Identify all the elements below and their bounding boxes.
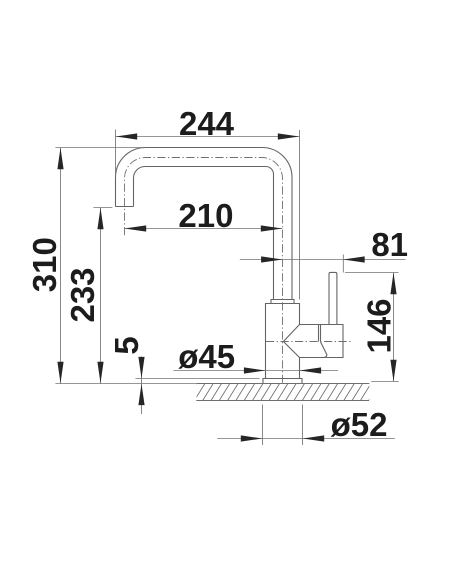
arrow 5 lower (points up) xyxy=(138,384,144,405)
arrow 233 up xyxy=(97,208,103,229)
svg-text:5: 5 xyxy=(108,336,145,354)
ext line spout top xyxy=(55,147,145,149)
ext line lever top xyxy=(345,272,399,274)
sleeve joint line a xyxy=(318,325,320,342)
arrow 81 right (points left) xyxy=(343,256,364,262)
spout outer edge xyxy=(116,148,293,300)
ext line 81 right xyxy=(342,255,344,273)
arrow dia52 left (points right) xyxy=(241,435,262,441)
svg-text:146: 146 xyxy=(361,298,398,353)
valve cone bottom diagonal xyxy=(283,342,299,358)
arrow 244 right xyxy=(278,133,299,139)
arrowheads xyxy=(57,133,396,441)
arrow 210 right xyxy=(261,225,282,231)
sleeve joint line b xyxy=(320,325,322,342)
arrow 310 down xyxy=(57,362,63,383)
spout inner edge xyxy=(134,167,274,300)
arrow 210 left xyxy=(125,225,146,231)
svg-text:310: 310 xyxy=(26,237,63,292)
svg-text:210: 210 xyxy=(178,197,233,234)
ext line dia52 left xyxy=(262,405,264,446)
dim line dia52 xyxy=(217,438,395,440)
arrow 146 up xyxy=(390,273,396,294)
sleeve lower slant xyxy=(321,342,327,358)
arrow dia45 right (points left) xyxy=(300,367,321,373)
valve cone top diagonal xyxy=(283,325,299,342)
body cylinder xyxy=(266,304,300,379)
dim line dia45 xyxy=(174,370,339,372)
spout outlet cap xyxy=(116,206,134,208)
centerline spout (dash-dot) xyxy=(125,158,283,383)
collar at top of body xyxy=(271,300,294,304)
dim line 244 xyxy=(116,136,300,138)
base flange xyxy=(263,379,302,384)
ext line countertop left xyxy=(55,383,196,385)
svg-text:ø45: ø45 xyxy=(178,338,235,375)
dim line 5 xyxy=(141,357,143,415)
dim line 146 xyxy=(393,273,395,382)
dim line 310 xyxy=(60,148,62,384)
dim line 210 xyxy=(125,228,283,230)
arrow 5 upper (points down) xyxy=(138,357,144,378)
ext line 244 right xyxy=(299,130,301,300)
arrow 81 left (points right) xyxy=(261,256,282,262)
arrow dia52 right (points left) xyxy=(303,435,324,441)
ext line dia52 right xyxy=(302,405,304,446)
arrow 244 left xyxy=(116,133,137,139)
countertop hatching xyxy=(186,384,379,401)
ext line 244 left xyxy=(115,130,117,178)
ext line flange top xyxy=(135,378,259,380)
dim line 233 xyxy=(100,208,102,384)
thin dimension / extension lines xyxy=(55,130,405,446)
arrow dia45 left (points right) xyxy=(244,367,265,373)
arrow 233 down xyxy=(97,362,103,383)
lever handle xyxy=(329,272,337,324)
ext line counter right xyxy=(371,381,399,383)
centerline valve horizontal (dash-dot) xyxy=(266,341,352,343)
svg-text:81: 81 xyxy=(371,226,408,263)
svg-text:233: 233 xyxy=(64,267,101,322)
svg-text:244: 244 xyxy=(179,105,235,142)
countertop hatch band xyxy=(196,384,369,401)
arrow 146 down xyxy=(390,360,396,381)
dim line 81 xyxy=(240,259,406,261)
svg-text:ø52: ø52 xyxy=(331,406,388,443)
handle sleeve outline xyxy=(300,325,344,358)
arrow 310 up xyxy=(57,148,63,169)
ext line outlet level xyxy=(93,207,112,209)
